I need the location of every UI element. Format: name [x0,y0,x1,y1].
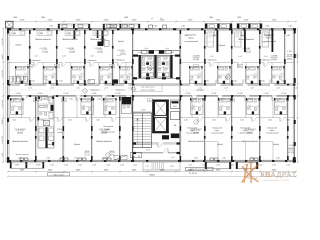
corridor doors bottom [22,95,27,97]
svg-text:1: 1 [133,88,134,91]
top row unit partition walls [29,30,31,84]
svg-text:2,08: 2,08 [198,87,202,90]
svg-text:0,90: 0,90 [184,119,188,122]
svg-text:(21,96): (21,96) [271,58,277,61]
svg-text:0,90: 0,90 [41,98,45,101]
svg-text:1390: 1390 [13,16,17,19]
bottom row hall doors [30,117,34,118]
svg-text:2,08: 2,08 [216,163,220,166]
top wall piers [8,28,11,30]
svg-text:Жилая комната: Жилая комната [238,38,254,41]
svg-text:07,06: 07,06 [186,92,191,95]
top dimension line [8,21,296,23]
bottom balcony left pair [10,162,27,168]
svg-text:Кухня: Кухня [219,44,226,47]
svg-text:Кухня: Кухня [273,143,280,146]
svg-text:0,90: 0,90 [240,119,244,122]
svg-text:7,20: 7,20 [49,25,53,28]
svg-text:2,08: 2,08 [144,47,147,50]
bottom row hall walls [8,117,38,119]
bottom balcony right pair [205,162,231,169]
kitchen counters top-left units [10,31,25,36]
svg-text:(21,96): (21,96) [193,58,199,61]
svg-text:(37,9): (37,9) [85,154,90,157]
right dimension line [297,29,299,163]
svg-text:3,4: 3,4 [280,72,282,75]
svg-text:2,08: 2,08 [272,163,276,166]
watermark logo glyph [242,161,258,183]
svg-text:15,06: 15,06 [146,149,151,152]
elevator cab 2 [155,118,167,132]
svg-text:2,08: 2,08 [78,163,82,166]
top balcony mid [103,24,140,28]
svg-text:0,90: 0,90 [261,80,265,83]
svg-text:2,08: 2,08 [36,163,40,166]
svg-text:0,90: 0,90 [59,80,63,83]
svg-text:0,90: 0,90 [266,34,270,37]
svg-text:21,24,01: 21,24,01 [189,172,198,175]
svg-text:2,08: 2,08 [276,87,280,90]
svg-text:(29,95): (29,95) [101,131,107,134]
svg-text:(29,95): (29,95) [17,131,23,134]
svg-text:3,25: 3,25 [117,54,121,57]
svg-text:(16,44): (16,44) [245,51,251,54]
svg-text:0,90: 0,90 [46,156,50,159]
svg-text:L: L [133,154,135,158]
top row room partitions half [42,63,44,85]
svg-text:Жилая комната: Жилая комната [62,38,78,41]
svg-text:0,90: 0,90 [212,34,216,37]
svg-text:2,08: 2,08 [250,87,254,90]
svg-text:ЕЩ: ЕЩ [174,105,177,108]
right units partial walls [206,141,219,143]
svg-text:Прихожая: Прихожая [91,89,100,92]
svg-text:недвижимость и право: недвижимость и право [263,179,290,182]
corridor bottom wall [8,94,296,96]
svg-text:1 СБ: 1 СБ [287,50,292,53]
svg-text:2,08: 2,08 [202,163,206,166]
svg-text:0,90: 0,90 [97,98,101,101]
svg-text:0,90: 0,90 [233,80,237,83]
svg-text:4,1: 4,1 [248,104,250,107]
svg-text:23,95: 23,95 [287,54,293,57]
svg-text:(20,9): (20,9) [287,57,292,60]
top balcony right-a [205,24,232,29]
left dimension line [2,29,4,163]
svg-text:3,25: 3,25 [90,55,94,58]
svg-text:2,08: 2,08 [64,163,68,166]
svg-text:3,4: 3,4 [198,72,200,75]
svg-text:4,1: 4,1 [105,104,107,107]
stairwell [133,113,152,148]
svg-text:3,4: 3,4 [24,72,26,75]
svg-text:Жилая комната: Жилая комната [35,38,51,41]
svg-text:2,08: 2,08 [106,163,110,166]
bottom corner blobs [7,158,10,163]
svg-text:14200: 14200 [296,54,299,59]
axis markers [83,89,87,93]
svg-text:7,20: 7,20 [181,25,185,28]
svg-text:3,25: 3,25 [238,55,242,58]
svg-text:2,08: 2,08 [15,163,19,166]
svg-text:2,08: 2,08 [76,87,80,90]
svg-text:2,08: 2,08 [188,163,192,166]
black shaft block next to core bottom [122,97,132,104]
svg-text:0,90: 0,90 [221,98,225,101]
balcony louver boxes [106,25,110,28]
top balcony right-b [237,24,262,29]
svg-text:0,90: 0,90 [250,156,254,159]
watermark text [261,170,297,182]
svg-text:1 23,95: 1 23,95 [271,55,279,58]
svg-text:(13,43): (13,43) [97,51,103,54]
svg-text:0,90: 0,90 [68,119,72,122]
struck panel near bottom wall [114,155,127,160]
svg-text:0,90: 0,90 [277,98,281,101]
svg-text:1 25,82: 1 25,82 [57,128,65,131]
svg-text:1390: 1390 [237,16,241,19]
svg-text:Прихожая: Прихожая [262,58,271,61]
svg-text:2,08: 2,08 [133,163,137,166]
svg-text:3,25: 3,25 [62,55,66,58]
bottom row unit partition walls [35,97,37,160]
svg-text:2,08: 2,08 [230,163,234,166]
svg-text:сан.1 реж. особ.: сан.1 реж. особ. [141,86,155,89]
svg-text:КВ: КВ [261,170,271,179]
entrance porch [143,162,180,171]
svg-text:3,4: 3,4 [52,72,54,75]
svg-text:4,07: 4,07 [171,156,175,159]
svg-text:0,90: 0,90 [69,98,73,101]
svg-text:1 13,43: 1 13,43 [94,47,102,50]
svg-text:(14,26): (14,26) [69,51,75,54]
core right shaft boxes [171,100,180,109]
top right kitchen nooks and shafts [207,32,214,47]
svg-text:офиса: офиса [188,37,195,40]
svg-text:офиса: офиса [266,37,273,40]
svg-text:2,78 0,90: 2,78 0,90 [1,100,4,108]
svg-text:0,90: 0,90 [13,98,17,101]
svg-text:0,90: 0,90 [39,32,43,35]
svg-text:с кухней-нишей: с кухней-нишей [262,40,276,43]
svg-text:Жилая комната: Жилая комната [90,38,106,41]
svg-text:Прихожая: Прихожая [116,58,125,61]
svg-text:с кухней-нишей: с кухней-нишей [238,132,251,135]
vent boxes above top wall near core [149,25,153,28]
svg-text:2,08: 2,08 [224,87,228,90]
svg-text:2,08: 2,08 [286,163,290,166]
svg-text:0,90: 0,90 [95,32,99,35]
svg-text:(27,75): (27,75) [288,151,294,154]
svg-text:07,06: 07,06 [264,92,269,95]
top-left balcony box [6,21,14,28]
corridor wall piers [8,84,10,86]
svg-text:4,1: 4,1 [192,104,194,107]
svg-text:Жилая комната: Жилая комната [16,153,29,156]
kitchen shaft bars top-left units [102,30,104,44]
bottom outer wall [8,159,296,161]
window schedule tag [131,152,142,157]
bottom wall piers [8,160,11,162]
svg-text:07,06: 07,06 [38,92,43,95]
left outer wall [6,29,8,162]
svg-text:4,1: 4,1 [276,104,278,107]
svg-text:0,90: 0,90 [276,156,280,159]
svg-text:3,4: 3,4 [108,72,110,75]
svg-text:0,90: 0,90 [96,119,100,122]
elevator cab 1 [155,102,167,116]
core lobby [133,142,180,144]
corridor doors top [20,84,25,86]
svg-text:2,08: 2,08 [258,163,262,166]
svg-text:0,90: 0,90 [205,80,209,83]
svg-text:07,06: 07,06 [238,92,243,95]
svg-text:2,08: 2,08 [92,163,96,166]
svg-text:Прихожая: Прихожая [116,89,125,92]
svg-text:0,90: 0,90 [286,119,290,122]
svg-text:1,2: 1,2 [160,17,162,20]
svg-text:07,06: 07,06 [16,92,21,95]
svg-text:3,25: 3,25 [210,55,214,58]
svg-text:0,90: 0,90 [40,119,44,122]
svg-text:Жилая комната: Жилая комната [188,140,204,143]
svg-text:1,35 2,08: 1,35 2,08 [1,70,4,78]
svg-text:4,1: 4,1 [220,104,222,107]
right outer wall [294,29,296,162]
svg-text:3,25: 3,25 [264,55,268,58]
top outer wall [8,28,296,30]
door jambs [29,46,31,49]
svg-text:0,90: 0,90 [12,119,16,122]
svg-text:0,90: 0,90 [193,98,197,101]
svg-text:с кухней-нишей: с кухней-нишей [185,132,198,135]
svg-text:1390: 1390 [124,16,128,19]
svg-text:2,08: 2,08 [165,47,168,50]
svg-text:38,18: 38,18 [289,147,294,150]
svg-text:2,08: 2,08 [120,163,124,166]
svg-text:1 16,44: 1 16,44 [242,47,250,50]
svg-text:2,08: 2,08 [104,87,108,90]
svg-text:2,08: 2,08 [28,87,32,90]
svg-text:Кухня: Кухня [74,143,81,146]
svg-text:0,90: 0,90 [268,119,272,122]
svg-text:2,08: 2,08 [50,87,54,90]
top balcony left [58,24,90,28]
svg-text:с кухней-нишей: с кухней-нишей [184,40,198,43]
bottom row half partitions [21,97,23,118]
corridor top wall [8,83,296,85]
bottom row bathrooms [11,99,24,115]
svg-text:38,05: 38,05 [85,150,90,153]
core sanitary blocks top [139,55,141,78]
black shaft bars top right units [217,30,219,52]
svg-text:07,06: 07,06 [116,92,121,95]
svg-text:0,90: 0,90 [222,156,226,159]
svg-text:0,90: 0,90 [240,34,244,37]
svg-text:Кухня: Кухня [118,40,125,43]
bottom dimension line 2 [8,175,296,177]
svg-text:0,90: 0,90 [12,32,16,35]
svg-text:1 СБ 38,13: 1 СБ 38,13 [99,128,111,131]
svg-text:3,58: 3,58 [1,153,4,157]
svg-text:1390: 1390 [209,16,213,19]
svg-text:3,4: 3,4 [128,72,130,75]
svg-text:0,90: 0,90 [31,80,35,83]
svg-text:0,90: 0,90 [249,98,253,101]
svg-text:1,2: 1,2 [151,17,153,20]
svg-text:2,08: 2,08 [128,87,132,90]
svg-text:0,90: 0,90 [184,34,188,37]
svg-text:4,1: 4,1 [12,104,14,107]
svg-text:38,05: 38,05 [110,150,115,153]
svg-text:0,90: 0,90 [115,80,119,83]
svg-text:1,35 2,08: 1,35 2,08 [1,136,4,144]
svg-text:3,4: 3,4 [254,72,256,75]
svg-text:1 23,95: 1 23,95 [193,55,201,58]
svg-text:Кухня: Кухня [46,143,53,146]
svg-text:Жилая комната: Жилая комната [96,140,112,143]
top row doors from halls [34,62,38,63]
svg-text:2 СБ 38,13: 2 СБ 38,13 [15,128,27,131]
svg-text:83540: 83540 [149,174,155,177]
svg-text:Прихожая: Прихожая [32,59,41,62]
service strip bottom-left apartment [38,97,54,148]
svg-text:2,08: 2,08 [294,87,298,90]
core shaft boxes above sanitary [149,50,155,54]
svg-text:0,90: 0,90 [281,80,285,83]
svg-text:14,93: 14,93 [141,109,146,112]
svg-text:ок: ок [138,154,140,157]
elevator shaft walls [152,100,154,134]
svg-text:07,06: 07,06 [212,92,217,95]
svg-text:0,90: 0,90 [87,80,91,83]
svg-text:1 17,25: 1 17,25 [39,47,47,50]
svg-text:1390: 1390 [41,16,45,19]
central stair-elevator core walls [132,50,134,160]
svg-text:Прихожая: Прихожая [208,58,217,61]
svg-text:7,20: 7,20 [124,25,128,28]
svg-text:14200: 14200 [1,55,4,60]
svg-text:7,20: 7,20 [265,25,269,28]
svg-text:3,25: 3,25 [34,55,38,58]
corridor dashes [10,89,130,91]
balcony door assemblies bottom wall [20,158,24,160]
svg-text:1,50: 1,50 [145,165,148,168]
svg-text:1 12,11: 1 12,11 [117,49,125,52]
svg-text:0,90: 0,90 [74,156,78,159]
top row bathrooms [16,67,29,84]
svg-text:(17,25): (17,25) [42,51,48,54]
svg-text:2,08: 2,08 [50,163,54,166]
svg-text:4,1: 4,1 [83,104,85,107]
svg-text:(12,11): (12,11) [120,53,126,56]
svg-text:0,90: 0,90 [212,119,216,122]
svg-text:0,90: 0,90 [102,156,106,159]
svg-text:0,90: 0,90 [138,51,142,54]
svg-text:0,90: 0,90 [67,32,71,35]
svg-text:Прихожая: Прихожая [88,59,97,62]
svg-text:Кухня: Кухня [16,44,23,47]
svg-text:07,06: 07,06 [92,92,97,95]
svg-text:7,20: 7,20 [288,25,292,28]
svg-text:Помещичий: Помещичий [103,125,113,128]
svg-text:12400: 12400 [1,120,4,125]
left unit kitchen counter band [10,77,13,83]
svg-text:1 14,26: 1 14,26 [66,47,74,50]
svg-text:07,06: 07,06 [64,92,69,95]
svg-text:7,20: 7,20 [153,25,157,28]
svg-text:0,90: 0,90 [18,156,22,159]
window tags [27,65,33,68]
svg-text:2,78 0,90: 2,78 0,90 [1,38,4,46]
svg-text:требов. терморег.: требов. терморег. [141,89,156,92]
svg-text:07,06: 07,06 [282,92,287,95]
svg-text:3,4: 3,4 [80,72,82,75]
svg-text:(24,06): (24,06) [57,131,63,134]
svg-text:Жилая комната: Жилая комната [12,140,28,143]
bottom dimension line 1 [8,171,296,173]
top row entry walls [8,62,133,64]
svg-text:0,90: 0,90 [194,156,198,159]
svg-text:с кухней-нишей: с кухней-нишей [210,132,223,135]
svg-text:0,90: 0,90 [286,34,290,37]
svg-text:с кухней-нишей: с кухней-нишей [265,132,278,135]
svg-text:0,90: 0,90 [170,51,174,54]
